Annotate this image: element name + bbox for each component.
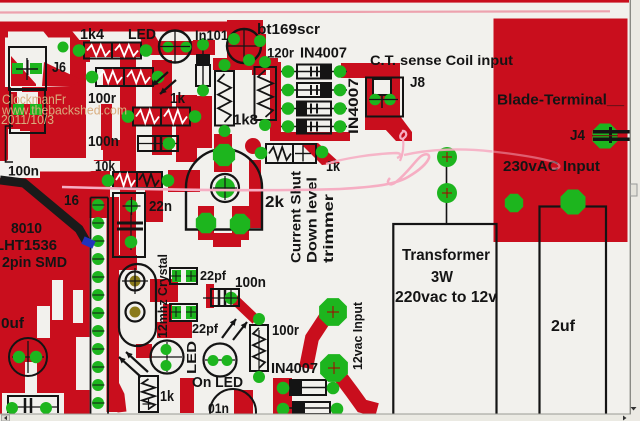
pink annotation upper bbox=[326, 149, 559, 168]
IC column outline bbox=[91, 198, 109, 415]
svg-text:IN4007: IN4007 bbox=[271, 361, 318, 377]
vscroll bottom button bbox=[631, 407, 637, 411]
wire transformer feed bbox=[446, 160, 448, 224]
copper left edge strip bbox=[0, 32, 8, 56]
copper under diode row bbox=[270, 132, 350, 141]
label Transformer bbox=[402, 247, 490, 264]
pad 1k4-left bbox=[73, 44, 86, 57]
blade terminal lugs bbox=[592, 127, 640, 143]
LED arrows NE bbox=[222, 319, 247, 340]
label 100r bbox=[88, 90, 116, 107]
label 1k8 bbox=[233, 112, 258, 129]
pad D3-right bbox=[334, 102, 347, 115]
pad D1-left bbox=[282, 65, 295, 78]
resistor R-1k bot bbox=[139, 376, 158, 412]
capacitor C-bl bbox=[8, 396, 58, 413]
copper IC top bbox=[90, 197, 110, 218]
wire 12vac pad1 trace bbox=[306, 306, 333, 368]
hscroll left button bbox=[2, 415, 10, 421]
copper right of 10k bbox=[168, 170, 200, 192]
copper top band bbox=[0, 20, 263, 34]
crystal X1 body bbox=[119, 264, 156, 346]
clearance 0uf channels bbox=[25, 280, 90, 395]
pad 100r-left bbox=[86, 71, 99, 84]
svg-text:C.T. sense Coil input: C.T. sense Coil input bbox=[370, 53, 514, 68]
svg-text:LHT1536: LHT1536 bbox=[0, 237, 57, 254]
svg-text:22pf: 22pf bbox=[192, 321, 219, 336]
copper under 1k row3 bbox=[134, 108, 189, 125]
clearance col right bbox=[86, 62, 103, 160]
label 100n left bbox=[8, 163, 39, 179]
label 3W bbox=[431, 269, 453, 286]
watermark line2 bbox=[1, 103, 127, 118]
clearance bottom cap bbox=[2, 393, 64, 414]
label 1k trim bbox=[326, 158, 341, 175]
connector J6 lower bbox=[10, 89, 45, 133]
pad In101-top bbox=[197, 39, 209, 51]
connector J8 bbox=[366, 78, 403, 117]
label Current Shut bbox=[289, 170, 304, 263]
LED D3 body bbox=[204, 344, 237, 377]
pad 1k8-top bbox=[219, 59, 231, 71]
copper trimmer right col2 bbox=[232, 206, 249, 240]
wire 100n2 down bbox=[234, 299, 256, 320]
label J8 bbox=[410, 75, 425, 91]
vscroll thumb bbox=[631, 184, 638, 196]
label 120r bbox=[267, 46, 295, 61]
vertical scrollbar strip bbox=[631, 0, 640, 421]
pad LED1-k bbox=[161, 360, 172, 371]
label On LED bbox=[192, 375, 243, 391]
wire right of SCR bbox=[252, 34, 266, 75]
wire jumper blue tip bbox=[83, 240, 94, 245]
copper under 10k bbox=[113, 171, 163, 189]
label bt169scr bbox=[257, 22, 320, 38]
horizontal scrollbar bbox=[0, 415, 640, 421]
resistor R-1k bbox=[133, 108, 190, 126]
pad xfmr-1 bbox=[437, 147, 457, 167]
resistor R-1k4 bbox=[84, 43, 141, 59]
label 16 bbox=[64, 192, 79, 209]
svg-text:trimmer: trimmer bbox=[321, 193, 336, 263]
pad J4 bbox=[593, 124, 618, 149]
pad 100r-right bbox=[152, 71, 165, 84]
diode D5 bbox=[280, 380, 336, 395]
pad 10k-right bbox=[162, 174, 175, 187]
copper crystal to LED1 bbox=[136, 344, 152, 358]
pad bt169-3 bbox=[254, 35, 266, 47]
copper band 120r 1k8 tops bbox=[213, 58, 278, 70]
pad 230v-1 bbox=[505, 194, 523, 212]
svg-text:100r: 100r bbox=[272, 323, 299, 339]
label 1k4 bbox=[80, 26, 105, 43]
capacitor C-100n2 bbox=[203, 289, 239, 306]
pad D2-right bbox=[334, 84, 347, 97]
svg-text:1k4: 1k4 bbox=[80, 26, 105, 43]
resistor R-120r bbox=[255, 67, 277, 120]
svg-text:22n: 22n bbox=[149, 198, 172, 215]
pad bt169-2 bbox=[243, 54, 255, 66]
copper diode2 column bbox=[273, 378, 292, 414]
pad J6-4 bbox=[30, 104, 42, 115]
copper strip B bbox=[152, 60, 172, 155]
resistor R-100r vert bbox=[250, 325, 268, 372]
pad 2k-wiper bbox=[211, 174, 239, 202]
label LHT1536 bbox=[0, 237, 57, 254]
svg-text:J8: J8 bbox=[410, 75, 425, 91]
pad 1k8-bot bbox=[219, 125, 231, 137]
IC pin field bbox=[90, 218, 107, 414]
pad LED2-a bbox=[208, 355, 219, 366]
pad 12vac-2 bbox=[320, 354, 348, 382]
diode D3 IN4007 bbox=[281, 101, 347, 116]
svg-text:2011/10/3: 2011/10/3 bbox=[1, 112, 54, 127]
label N4007 vertical bbox=[346, 78, 361, 134]
pad 22n-top bbox=[125, 200, 138, 213]
label In101 bbox=[195, 28, 228, 43]
pad D6-right bbox=[331, 403, 344, 416]
hscroll right button bbox=[623, 416, 627, 421]
wire LED feed bbox=[137, 30, 160, 48]
copper trimmer right col bbox=[249, 160, 261, 228]
svg-text:LED: LED bbox=[185, 341, 199, 374]
svg-text:2uf: 2uf bbox=[551, 318, 576, 335]
pad 2k-bl bbox=[196, 213, 216, 233]
diode In101 bbox=[196, 38, 210, 95]
pad D2-left bbox=[282, 84, 295, 97]
copper col bottom A bbox=[180, 378, 194, 413]
pad LED1-a bbox=[161, 344, 172, 355]
pad D4-right bbox=[334, 120, 347, 133]
pad 12vac-1 bbox=[319, 298, 347, 326]
label 2k bbox=[265, 194, 284, 211]
svg-text:Transformer: Transformer bbox=[402, 247, 490, 264]
svg-text:IN4007: IN4007 bbox=[346, 78, 361, 134]
label 10k bbox=[95, 159, 116, 175]
svg-text:Blade-Terminal__: Blade-Terminal__ bbox=[497, 92, 625, 109]
clearance slot mid bbox=[6, 158, 95, 172]
svg-text:100n: 100n bbox=[8, 163, 39, 179]
copper J8 pour bbox=[341, 63, 412, 141]
label J4 bbox=[570, 128, 585, 144]
pad J6-1 bbox=[12, 63, 23, 74]
resistor R-10k bbox=[113, 172, 162, 188]
diode D6 bbox=[283, 402, 340, 414]
copper 1k left blob bbox=[245, 138, 261, 154]
pad J6-2 bbox=[30, 63, 42, 74]
label 12vac Input bbox=[350, 301, 365, 370]
copper 22n right strip bbox=[145, 190, 163, 222]
copper right of crystal bbox=[150, 279, 178, 302]
svg-text:1k: 1k bbox=[170, 90, 186, 107]
label 22pf top bbox=[200, 268, 227, 283]
resistor R-1k trim bbox=[266, 144, 316, 163]
pad D1-right bbox=[334, 65, 347, 78]
pad 2k-br bbox=[230, 214, 250, 234]
copper left of IC bbox=[85, 171, 110, 198]
crystal pad2 bbox=[126, 303, 145, 322]
pad 120r-top bbox=[259, 56, 271, 68]
label 2pin SMD bbox=[2, 254, 67, 271]
capacitor C-22pf1 bbox=[170, 268, 197, 284]
connector J6 cross bbox=[16, 58, 38, 80]
pad J6-3 bbox=[13, 104, 24, 115]
pad J8-1 bbox=[369, 94, 381, 106]
resistor R-1k8 bbox=[215, 71, 234, 126]
pad 100rv-bot bbox=[253, 371, 265, 383]
wire 1k diag bbox=[300, 143, 340, 165]
pad 1k-left bbox=[122, 110, 135, 123]
svg-text:In101: In101 bbox=[195, 28, 228, 43]
pad 120r-bot bbox=[259, 119, 271, 131]
pad 100n2 bbox=[223, 290, 239, 306]
copper J6 inner b bbox=[20, 93, 36, 131]
LED D1 cross bbox=[160, 32, 190, 62]
transistor arrows NW bbox=[119, 352, 148, 377]
pad J8-2 bbox=[384, 94, 396, 106]
pad bt169-1 bbox=[228, 33, 240, 45]
resistor R-100r bbox=[96, 68, 153, 86]
label 01n bbox=[208, 401, 229, 416]
label 220vac to 12v bbox=[395, 289, 497, 306]
svg-text:100n: 100n bbox=[235, 275, 266, 291]
LED D1 body bbox=[159, 31, 191, 63]
thyristor bt169 body bbox=[227, 29, 261, 63]
pad LED-k bbox=[181, 42, 192, 53]
copper J6 wedge bbox=[42, 62, 82, 87]
clearance 100n label bbox=[0, 161, 40, 178]
copper patch below trimmer bbox=[213, 233, 241, 247]
pad 100n-right bbox=[163, 137, 176, 150]
capacitor 2uf box bbox=[540, 207, 607, 419]
svg-text:LED: LED bbox=[128, 26, 156, 43]
svg-text:12vac Input: 12vac Input bbox=[350, 301, 365, 370]
label 8010 bbox=[11, 220, 42, 237]
copper under J6 zone bbox=[70, 40, 90, 87]
pad D4-left bbox=[282, 120, 295, 133]
svg-text:Current Shut: Current Shut bbox=[289, 170, 304, 263]
left copper slab bbox=[0, 50, 90, 414]
diode D2 IN4007 bbox=[281, 83, 347, 98]
svg-text:22pf: 22pf bbox=[200, 268, 227, 283]
copper 230v block bbox=[494, 19, 628, 243]
label LED vert bbox=[185, 341, 199, 374]
pad 0uf-b bbox=[30, 351, 42, 363]
label 12mhz Crystal bbox=[156, 254, 170, 338]
connector J6 upper bbox=[9, 47, 46, 90]
trimmer RV-2k body bbox=[186, 149, 262, 230]
watermark line3 bbox=[1, 112, 54, 127]
label 230vAC Input bbox=[503, 159, 600, 175]
svg-text:2pin SMD: 2pin SMD bbox=[2, 254, 67, 271]
pad D3-left bbox=[282, 102, 295, 115]
svg-text:J6: J6 bbox=[52, 59, 66, 76]
copper band LED row bbox=[141, 41, 201, 55]
copper In101 column bbox=[196, 96, 212, 148]
svg-text:220vac to 12v: 220vac to 12v bbox=[395, 289, 497, 306]
diode D1 IN4007 bbox=[281, 64, 347, 79]
pad D5-right bbox=[327, 382, 340, 395]
label Down level bbox=[305, 177, 320, 263]
copper In101 pad patch bbox=[193, 40, 215, 55]
capacitor C-0uf bbox=[9, 338, 47, 376]
pad Cbl-left bbox=[6, 402, 18, 414]
capacitor 22n crosses bbox=[123, 197, 141, 215]
svg-text:8010: 8010 bbox=[11, 220, 42, 237]
copper block mid-left bbox=[90, 140, 120, 161]
pad LED-a bbox=[163, 42, 174, 53]
label C.T. sense Coil input bbox=[370, 53, 514, 68]
svg-text:16: 16 bbox=[64, 192, 79, 209]
svg-text:10k: 10k bbox=[95, 159, 116, 175]
svg-text:120r: 120r bbox=[267, 46, 295, 61]
diode D4 IN4007 bbox=[281, 119, 347, 134]
label 100n crystal bbox=[235, 275, 266, 291]
capacitor C-100n bbox=[138, 136, 178, 151]
copper near 100n3 bbox=[206, 284, 214, 308]
pad 0uf-a bbox=[13, 351, 25, 363]
window right border bbox=[629, 0, 631, 414]
J6 clearance bbox=[5, 38, 70, 93]
copper left of 22pf2 bbox=[163, 304, 172, 322]
copper diode column bbox=[270, 62, 281, 133]
label 100r vert bbox=[272, 323, 299, 339]
pad 10k-left bbox=[102, 174, 115, 187]
svg-text:J4: J4 bbox=[570, 128, 585, 144]
pad 1ktrim-right bbox=[316, 146, 329, 159]
watermark line1 bbox=[2, 92, 66, 107]
pad Cbl-right bbox=[40, 402, 52, 414]
svg-text:1k: 1k bbox=[160, 388, 175, 405]
label 1k bot bbox=[160, 388, 175, 405]
copper right col mid bbox=[101, 104, 112, 150]
label 2uf bbox=[551, 318, 576, 335]
svg-text:IN4007: IN4007 bbox=[300, 46, 347, 62]
pad 1ktrim-left bbox=[255, 147, 268, 160]
pad 230v-2 bbox=[561, 190, 586, 215]
pad top-left stub bbox=[58, 42, 69, 53]
svg-text:3W: 3W bbox=[431, 269, 453, 286]
optocoupler arrows bbox=[152, 72, 176, 94]
LED D4 arc bbox=[210, 389, 256, 421]
label 22pf bot bbox=[192, 321, 219, 336]
connector J8 cross bbox=[369, 99, 398, 101]
label J6 bbox=[52, 59, 66, 76]
copper col bottom B bbox=[234, 390, 253, 414]
wire IC pad elbow bbox=[104, 383, 122, 412]
label 0uf bbox=[1, 315, 25, 332]
wire jumper black bbox=[0, 180, 86, 241]
pink line top bbox=[0, 11, 610, 12]
clearance col left bbox=[8, 129, 30, 161]
capacitor outline left edge bbox=[6, 126, 14, 162]
label LED bbox=[128, 26, 156, 43]
copper strip A bbox=[120, 43, 136, 268]
transformer T1 box bbox=[393, 224, 496, 418]
svg-text:2k: 2k bbox=[265, 194, 284, 211]
svg-text:bt169scr: bt169scr bbox=[257, 22, 320, 38]
label Blade-Terminal bbox=[497, 92, 625, 109]
label IN4007 bottom bbox=[271, 361, 318, 377]
svg-text:12mhz Crystal: 12mhz Crystal bbox=[156, 254, 170, 338]
pad 100rv-top bbox=[253, 313, 265, 325]
pad 1k-right bbox=[189, 110, 202, 123]
LED D2 body bbox=[151, 341, 184, 374]
copper under 1k4 bbox=[85, 43, 140, 57]
pad 1k4-right bbox=[140, 44, 153, 57]
copper trimmer top bbox=[214, 134, 232, 172]
label IN4007 top bbox=[300, 46, 347, 62]
label 1k row3 bbox=[170, 90, 186, 107]
copper J6 inner a bbox=[11, 56, 36, 86]
crystal pad1 bbox=[122, 268, 148, 294]
svg-text:100n: 100n bbox=[88, 133, 119, 150]
copper under 100r bbox=[97, 69, 152, 85]
pad D5-left bbox=[277, 382, 290, 395]
label 22n bbox=[149, 198, 172, 215]
svg-text:0uf: 0uf bbox=[1, 315, 25, 332]
wire 12vac pad2 trace bbox=[334, 368, 377, 410]
wire band to 1k4 bbox=[43, 31, 86, 56]
content bottom boundary bbox=[0, 413, 631, 415]
copper under 22n bottom bbox=[119, 255, 137, 270]
pad LED2-k bbox=[222, 355, 233, 366]
pink annotation main bbox=[62, 154, 429, 190]
copper top rail bbox=[0, 0, 629, 3]
label 100n row4 bbox=[88, 133, 119, 150]
pad D6-left bbox=[277, 403, 290, 416]
IC pads column bbox=[92, 199, 105, 409]
pad 2k-top bbox=[213, 144, 235, 166]
capacitor C-22n bbox=[113, 193, 145, 257]
capacitor C-22pf2 bbox=[170, 304, 197, 321]
copper SCR zone bbox=[227, 20, 263, 66]
pad 22n-bot bbox=[125, 236, 138, 249]
pad In101-bot bbox=[197, 85, 209, 97]
copper IC right strip bbox=[106, 197, 119, 412]
label trimmer bbox=[321, 193, 336, 263]
pink annotation squiggle bbox=[400, 131, 406, 161]
copper strip C bbox=[176, 95, 197, 162]
pad xfmr-2 bbox=[437, 183, 457, 203]
copper trimmer left col bbox=[198, 206, 214, 240]
copper band below 22pf2 bbox=[157, 322, 192, 338]
